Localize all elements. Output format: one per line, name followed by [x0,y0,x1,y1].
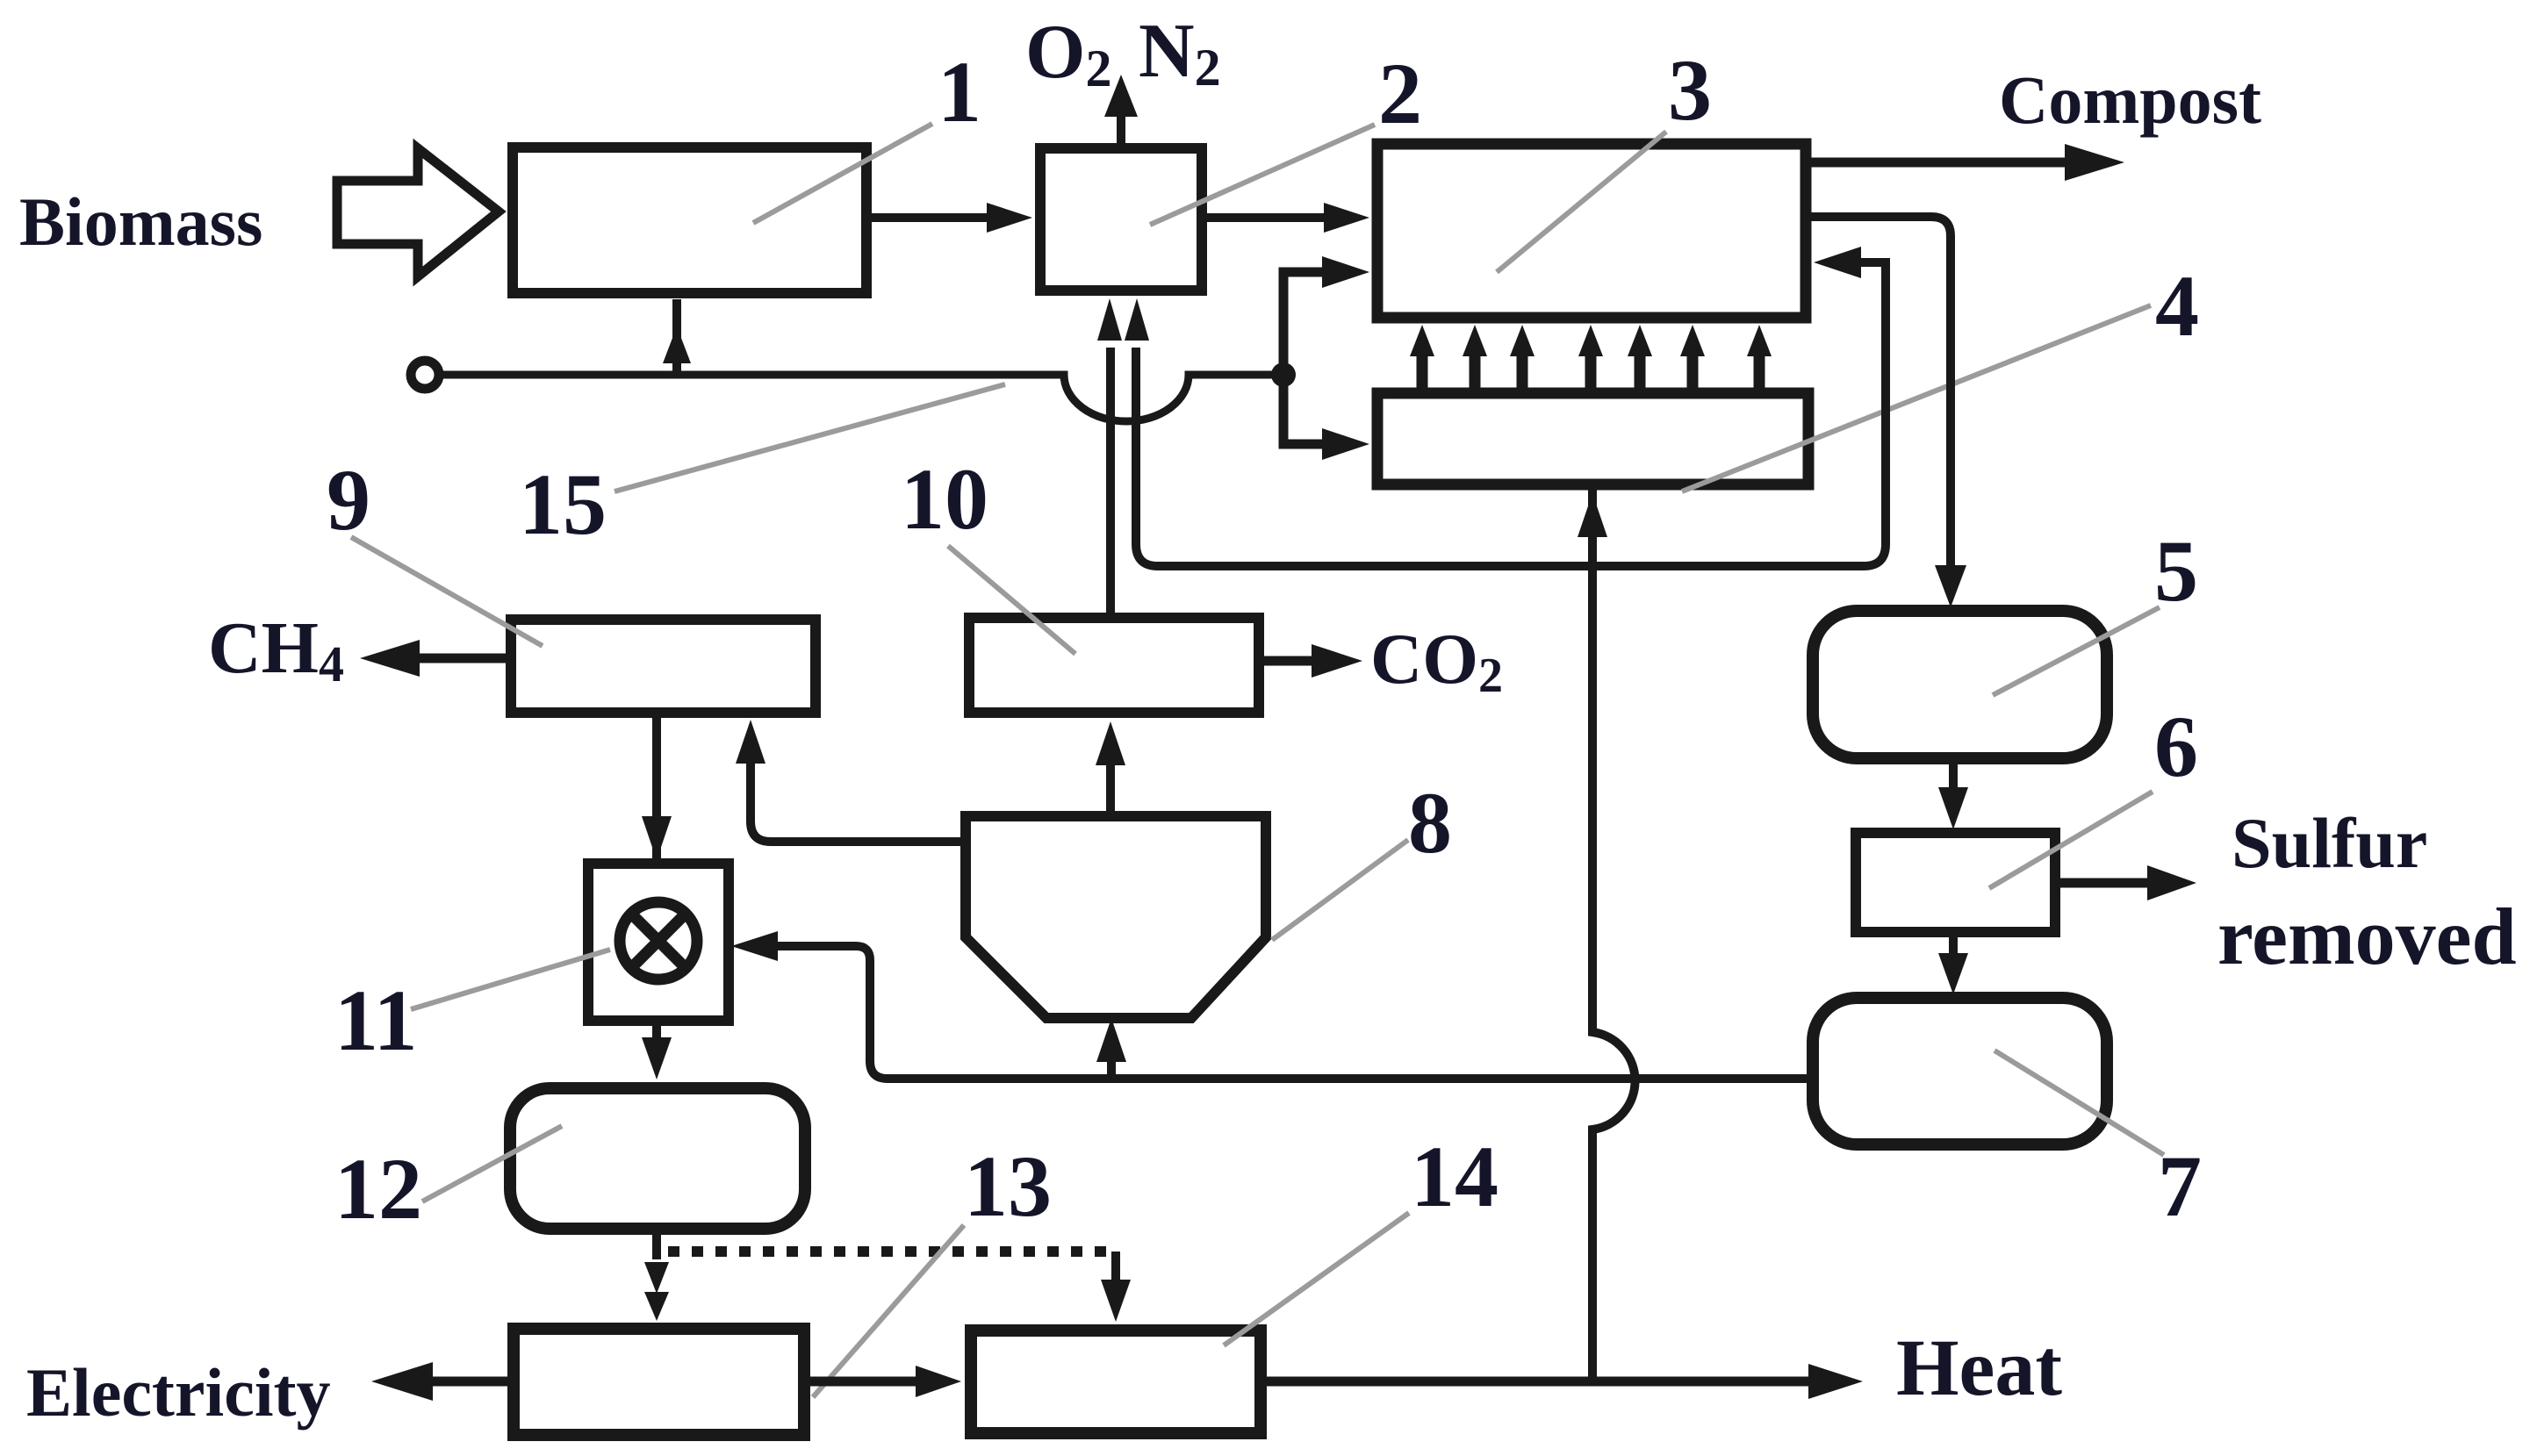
leader 13 [813,1225,964,1397]
junction dot stream into loop [1271,362,1296,387]
svg-text:3: 3 [1668,41,1712,139]
biomass input hollow arrow [337,148,499,276]
svg-text:14: 14 [1411,1128,1499,1225]
arrowhead up into block10 [1096,721,1125,765]
wire CH4 from block9 [417,654,506,663]
svg-text:Electricity: Electricity [26,1354,330,1431]
O2 N2 exhaust arrow [1117,112,1125,143]
svg-text:Compost: Compost [1999,61,2261,138]
wire sulfur from block6 [2055,879,2151,888]
wire block12 to block13 [652,1229,661,1259]
aeration arrows between block4 and block3 (7 up arrows) [1410,325,1772,390]
wire block3 to compost [1806,158,2072,168]
electricity arrowhead [371,1362,433,1401]
svg-text:12: 12 [334,1140,422,1237]
block 3 [1377,144,1806,318]
leader 7 [1995,1051,2164,1155]
svg-text:Sulfur: Sulfur [2232,803,2427,883]
leader 15 [615,384,1005,491]
arrowhead into block3 left [1324,203,1369,233]
leader 12 [422,1126,562,1201]
arrowhead into block2 left [987,203,1032,233]
svg-text:8: 8 [1408,774,1452,871]
arrowhead down into fan [642,816,672,860]
svg-text:10: 10 [901,450,988,548]
wire block8 left to block9 bottom [751,764,966,842]
svg-text:6: 6 [2154,698,2198,795]
svg-text:13: 13 [964,1137,1052,1235]
block 13 [514,1329,804,1435]
leader 6 [1989,792,2153,888]
wire block1 bottom to stream [672,299,681,375]
arrowhead up into block4 [1578,493,1607,537]
arrowhead up into block2 right leg [1125,298,1149,341]
fan block 11 [588,864,729,1021]
leader 2 [1150,125,1375,225]
arrowhead down into block5 [1935,565,1966,607]
arrowhead into fan right [731,931,778,961]
fan symbol [620,902,697,979]
block 1 [513,147,866,293]
wire block1 to block2 [872,213,996,222]
block 5 [1813,611,2107,758]
leader 3 [1497,132,1666,272]
arrowhead down into block6 [1938,787,1968,829]
arrowhead up into block9 [736,720,765,764]
recycle wire block2 leg to block3 right [1136,262,1886,566]
recycle loop left of block3 and block4 [1283,272,1326,444]
sulfur arrowhead [2147,865,2196,900]
wire from bottom line up into fan right [773,946,870,1061]
block 10 [969,618,1259,713]
long vertical from block4 bottom to heat line with hop [1592,490,1635,1381]
leader 14 [1224,1213,1409,1345]
block 12 [510,1088,805,1229]
svg-text:9: 9 [327,451,370,549]
svg-text:4: 4 [2155,257,2199,355]
arrowhead into block14 left [916,1366,961,1397]
block 9 [511,620,816,713]
svg-text:Heat: Heat [1896,1323,2062,1412]
block 4 [1377,393,1808,484]
svg-text:2: 2 [1378,45,1422,142]
stream terminal circle [411,361,439,389]
arrowhead down into block14 [1101,1280,1131,1322]
leader 8 [1272,840,1408,940]
stream 15 wire with hop [438,375,1283,421]
wire block6 to block7 [1949,932,1958,957]
wire block10 to block2 left leg [1106,348,1115,613]
arrowhead into block3 right [1814,247,1861,278]
leader 10 [948,546,1075,654]
arrowhead into block4 left [1322,428,1369,460]
leader 5 [1993,607,2160,695]
leader 9 [351,537,543,646]
wire electricity from block13 [430,1377,508,1387]
svg-text:1: 1 [938,43,981,140]
arrowhead down into block12 [642,1037,672,1079]
double arrowheads down into block13 [644,1262,669,1294]
wire block2 to block3 [1207,213,1339,222]
leader 4 [1682,305,2151,491]
leader 1 [753,124,932,223]
svg-text:Biomass: Biomass [19,183,262,260]
wire block13 to block14 [809,1377,922,1387]
bottom gas wire to block7 [870,1061,1813,1079]
wire block8 to block10 [1106,765,1115,816]
svg-text:15: 15 [519,455,607,553]
block 2 [1040,148,1202,290]
arrowhead up into block2 left leg [1097,298,1122,341]
arrowhead up into block8 bottom [1096,1018,1126,1062]
CH4 arrowhead [360,640,420,677]
dashed control line 13 to 14 [668,1246,1116,1257]
wire block3 to block5 [1806,217,1951,570]
wire fan to block12 [652,1021,661,1040]
wire block9 bottom to fan [652,718,661,860]
svg-text:7: 7 [2158,1137,2202,1235]
block 6 [1856,833,2055,932]
arrowhead into block3 left lower [1322,256,1369,288]
svg-text:11: 11 [334,972,417,1069]
arrowhead down into block7 [1938,953,1968,994]
arrowhead up into block1 [663,326,691,363]
CO2 arrowhead [1312,644,1362,678]
wire CO2 from block10 [1264,656,1317,666]
heat arrowhead [1808,1364,1863,1399]
wire up into block8 bottom [1107,1058,1116,1079]
wire down into block14 top [1111,1252,1120,1281]
block 7 [1813,998,2107,1144]
wire block5 to block6 [1949,758,1958,790]
svg-text:5: 5 [2154,522,2198,620]
compost arrowhead [2065,144,2124,181]
heat wire from block14 [1267,1377,1814,1387]
block 8 hopper [966,816,1266,1018]
leader 11 [411,950,610,1009]
svg-text:removed: removed [2217,892,2517,981]
block 14 [971,1330,1261,1433]
